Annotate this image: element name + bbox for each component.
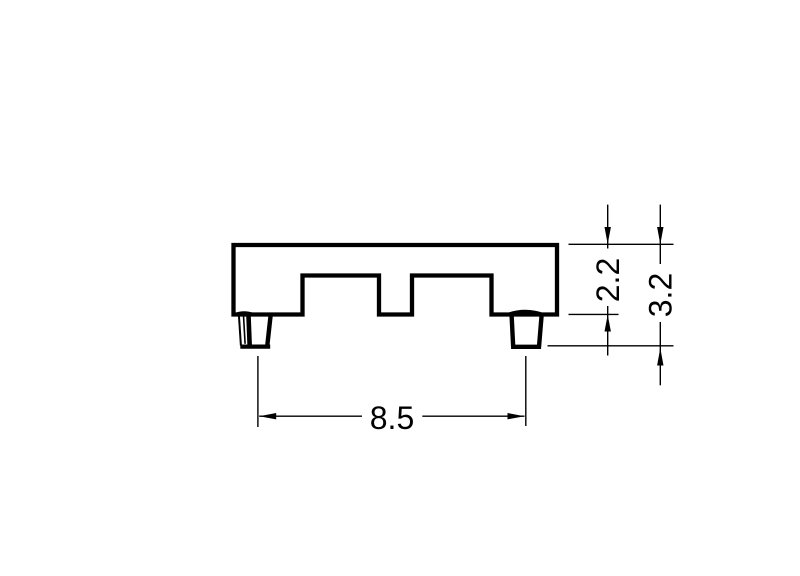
extension line below left leg (257, 356, 259, 427)
part body outline with bottom notches (234, 245, 558, 315)
left leg right edge (267, 316, 270, 347)
dimension 3.2 bottom arrow tail (659, 322, 661, 385)
right leg bump on body bottom edge (508, 311, 544, 314)
dimension 3.2 top arrow tail (659, 205, 661, 264)
left leg outer chamfer line (239, 315, 241, 346)
left leg bottom edge (240, 345, 270, 349)
svg-text:3.2: 3.2 (642, 273, 678, 317)
dimension 8.5 left line segment (259, 415, 362, 417)
left leg bump on body bottom edge (235, 313, 255, 315)
dimension 8.5 right line segment (422, 415, 524, 417)
svg-text:2.2: 2.2 (590, 258, 626, 302)
svg-text:8.5: 8.5 (370, 400, 414, 436)
dimension 2.2 bottom arrowhead (605, 315, 611, 332)
dimension 8.5 left arrowhead (259, 413, 276, 419)
dimension 3.2 top arrowhead (657, 227, 663, 244)
extension line middle right (body bottom) (569, 313, 619, 315)
left leg inner chamfer line (244, 316, 246, 344)
extension line top right (body top) (569, 243, 674, 245)
dimension 8.5 right arrowhead (508, 413, 525, 419)
dimension 3.2 bottom arrowhead (657, 348, 663, 366)
dimension 2.2 bottom arrow tail (607, 306, 609, 356)
extension line below right leg (525, 356, 527, 426)
extension line bottom right (leg bottom) (548, 345, 674, 347)
dimension 2.2 top arrow tail (607, 205, 609, 249)
left leg thick left edge (249, 316, 250, 347)
dimension 2.2 top arrowhead (605, 227, 611, 244)
right leg trapezoid (512, 316, 542, 347)
